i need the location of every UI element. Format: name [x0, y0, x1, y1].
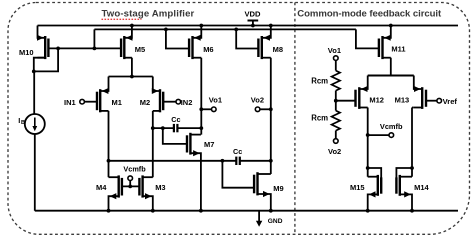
svg-text:B: B: [21, 120, 25, 126]
svg-text:M7: M7: [204, 140, 214, 149]
wire Vo1 to Rcm: [335, 60, 337, 70]
IN2 terminal: [163, 101, 176, 103]
wire VDD top rail: [38, 25, 459, 27]
svg-text:IN2: IN2: [181, 98, 193, 107]
svg-text:Vcmfb: Vcmfb: [380, 122, 403, 131]
node M5 source on rail: [130, 24, 134, 28]
node first-stage output B: [151, 126, 155, 130]
svg-text:Vo2: Vo2: [328, 147, 341, 156]
transistor M9: [256, 172, 258, 195]
node M9 gate tap: [221, 159, 225, 163]
wire Rcm junction: [335, 91, 337, 111]
node M14 source on ground: [410, 209, 414, 213]
wire M6 drain to M7 drain: [200, 58, 202, 135]
node M10 gate-drain junction: [56, 47, 60, 51]
transistor M5: [123, 36, 125, 59]
wire M6 gate riser: [166, 29, 189, 48]
svg-text:M8: M8: [273, 45, 283, 54]
node M15 diode junction: [366, 166, 370, 170]
svg-text:Cc: Cc: [233, 147, 242, 156]
svg-text:VDD: VDD: [244, 10, 261, 19]
svg-text:Common-mode feedback circuit: Common-mode feedback circuit: [297, 8, 442, 19]
wire M8 drain to M9 drain: [270, 58, 272, 174]
red underline under Two-stage: [102, 18, 142, 20]
node Vcmfb gate junction: [128, 185, 132, 189]
node Vo1 stub junction: [199, 107, 203, 111]
wire ground rail: [35, 210, 458, 212]
node Rcm midpoint: [334, 99, 338, 103]
node bias riser junction: [93, 47, 97, 51]
svg-text:M9: M9: [273, 184, 283, 193]
svg-text:I: I: [18, 116, 20, 125]
svg-text:Vo1: Vo1: [209, 96, 222, 105]
Vo2 terminal: [255, 107, 260, 112]
transistor M1: [99, 89, 101, 112]
svg-text:M12: M12: [369, 95, 384, 104]
resistor Rcm lower: [332, 111, 340, 131]
transistor M13: [421, 87, 423, 109]
wire M3-M4 gate link: [122, 185, 139, 187]
wire M13 drain down: [412, 107, 414, 109]
node tail junction: [130, 75, 134, 79]
wire Rcm to Vo2: [335, 131, 337, 139]
node M6 gate on bias line: [164, 28, 168, 32]
wire IB to ground rail: [34, 134, 36, 211]
transistor M8: [261, 36, 263, 59]
svg-text:Cc: Cc: [171, 115, 180, 124]
svg-text:M4: M4: [96, 183, 107, 192]
svg-text:M13: M13: [395, 95, 410, 104]
Vo1 terminal: [201, 108, 211, 110]
svg-text:M3: M3: [155, 183, 165, 192]
wire M9 gate link: [222, 161, 254, 188]
transistor M14: [399, 175, 401, 196]
node first-stage output A: [107, 159, 111, 163]
svg-text:Rcm: Rcm: [311, 114, 328, 123]
Vref terminal: [426, 100, 437, 102]
svg-text:Rcm: Rcm: [311, 77, 328, 86]
node M7 source on ground: [199, 209, 203, 213]
node M4 source on ground: [107, 209, 111, 213]
Vo2 terminal right: [334, 139, 339, 144]
transistor M10: [44, 36, 46, 59]
wire M15 gate link: [368, 168, 382, 178]
capacitor Cc2: [235, 157, 237, 165]
svg-text:M11: M11: [391, 45, 405, 54]
current source IB: [25, 114, 45, 134]
wire M14 gate link: [396, 168, 412, 178]
VDD power symbol: [248, 20, 259, 22]
node Vcmfb stub junction: [366, 133, 370, 137]
node M3 source on ground: [151, 209, 155, 213]
node M8 source on rail: [269, 24, 273, 28]
svg-text:M1: M1: [112, 98, 122, 107]
svg-text:GND: GND: [268, 218, 283, 225]
transistor M2: [159, 89, 161, 112]
transistor M12: [358, 87, 360, 109]
transistor M3: [141, 175, 143, 197]
wire node A to Cc: [109, 160, 237, 162]
wire M7 gate tap: [163, 128, 187, 144]
resistor Rcm upper: [332, 71, 340, 91]
svg-text:M5: M5: [135, 45, 145, 54]
node M10 drain junction: [32, 70, 36, 74]
wire M2 drain down to M3: [152, 111, 154, 177]
ground symbol: [258, 211, 260, 221]
svg-text:M14: M14: [414, 183, 429, 192]
node M15 source on ground: [366, 209, 370, 213]
svg-text:M10: M10: [19, 48, 34, 57]
wire M8 gate riser: [236, 29, 258, 48]
svg-text:Vo2: Vo2: [251, 96, 264, 105]
wire M12 drain down: [367, 108, 369, 177]
node Cc2 on Vo2 line: [269, 159, 273, 163]
transistor M4: [117, 175, 119, 197]
Vo1 terminal right: [334, 56, 339, 61]
wire M12 M13 source bar: [368, 75, 414, 77]
wire diff pair tail: [109, 76, 153, 78]
IN1 terminal: [80, 99, 85, 104]
svg-text:Vref: Vref: [443, 97, 458, 106]
node VDD stub junction: [251, 24, 255, 28]
svg-text:M15: M15: [350, 183, 365, 192]
svg-text:Vcmfb: Vcmfb: [123, 165, 146, 174]
wire Rcm mid to M12 gate: [336, 100, 356, 102]
wire PMOS gate bias line: [94, 28, 356, 30]
node Vo2 stub junction: [269, 107, 273, 111]
transistor M15: [377, 175, 379, 196]
wire M1 drain down to M4: [108, 111, 110, 177]
capacitor Cc1: [153, 127, 174, 129]
wire M10 drain to IB: [33, 71, 35, 114]
svg-text:IN1: IN1: [64, 98, 76, 107]
svg-text:M6: M6: [203, 45, 213, 54]
dashed section divider: [294, 3, 296, 235]
transistor M11: [381, 36, 383, 59]
wire bias riser to M11 gate: [356, 29, 379, 48]
svg-text:M2: M2: [140, 98, 150, 107]
transistor M6: [191, 36, 193, 59]
svg-text:Two-stage Amplifier: Two-stage Amplifier: [102, 9, 195, 20]
Vcmfb terminal left: [128, 176, 133, 181]
node M11 source on rail: [389, 24, 393, 28]
node M14 diode junction: [410, 166, 414, 170]
svg-text:Vo1: Vo1: [328, 46, 341, 55]
node M8 gate on bias line: [234, 28, 238, 32]
Vcmfb terminal right: [368, 134, 389, 136]
node Cc1 on Vo1 line: [199, 126, 203, 130]
node M6 source on rail: [199, 24, 203, 28]
node M9 source on ground: [269, 209, 273, 213]
wire bias riser to gate line: [93, 29, 95, 48]
wire M10 diode connection: [34, 48, 58, 71]
wire M10 gate to M5 gate: [48, 47, 121, 49]
node M7 gate tap junction: [161, 126, 165, 130]
transistor M7: [189, 133, 191, 155]
